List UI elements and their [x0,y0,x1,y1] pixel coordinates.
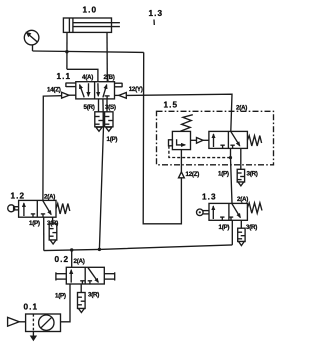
svg-text:1.5: 1.5 [164,101,179,110]
silencer on 3R valve 1.5 [237,169,244,186]
svg-text:4(A): 4(A) [82,74,93,81]
svg-text:1(P): 1(P) [107,136,118,143]
valve 1.1 blocked port T [105,96,110,99]
silencer on 3R valve 0.2 [78,293,86,313]
pilot arrow 12Z into sequence valve [179,150,185,178]
valve 1.1 right box flow arrows [98,83,107,97]
silencer on 3R valve 1.2 [49,224,57,244]
wire 3S stub [106,99,108,112]
sequence element pilot port box [169,140,173,146]
valve 1.1 left pilot triangle 14Z [62,92,76,98]
svg-text:3(R): 3(R) [247,171,258,178]
wire 12Y pilot line from valve 1.5 [126,94,232,131]
svg-text:3(R): 3(R) [246,224,257,231]
svg-text:12(Y): 12(Y) [129,86,143,93]
wire valve 0.2 2A up to bus [71,250,73,267]
wire 5R stub [98,99,100,112]
wire cylinder right port to 2B [106,32,108,81]
valve 1.3 body [209,203,247,220]
cylinder 1.0 [63,18,120,32]
valve 1.2 left box T [31,214,35,217]
wire 14Z pilot line from valve 1.2 [43,96,62,201]
valve 0.2 left box T [80,281,84,284]
valve 0.2 right box T [88,281,92,284]
svg-text:2(B): 2(B) [104,74,115,81]
svg-text:2(A): 2(A) [237,196,248,203]
svg-text:5(R): 5(R) [84,104,95,111]
valve 0.2 left lever plate [56,272,66,280]
valve 0.2 body [66,267,104,284]
valve 1.5 right box diagonal [231,132,240,146]
pilot connector arrow to valve [191,138,209,144]
valve 1.2 left box arrow [23,203,25,216]
valve 1.2 right box diagonal [43,201,51,215]
svg-text:3(R): 3(R) [88,292,99,299]
valve 1.5 left box arrow [213,134,215,147]
svg-text:0.1: 0.1 [24,303,39,312]
svg-text:1.0: 1.0 [83,6,98,15]
valve 1.3 right box diagonal [232,204,240,218]
junction dot dashed line [229,156,232,159]
valve 0.2 left box arrow [70,270,72,283]
wire 1P main supply riser [99,99,103,250]
svg-text:1.3: 1.3 [149,9,164,18]
junction dot 1P riser [98,248,101,251]
wire valve 1.5 1P to valve 1.3 2A [231,148,233,203]
silencer on 3S [105,112,113,132]
valve 1.1 left pilot rectangle [66,83,76,87]
valve 1.2 right box T [41,214,45,217]
svg-text:1.2: 1.2 [11,192,26,201]
wire gauge line [33,51,144,52]
valve 1.2 spring [56,204,70,214]
valve 1.3 right box T [229,217,233,220]
valve 1.1 left box flow arrows [80,83,89,97]
svg-text:2(A): 2(A) [74,258,85,265]
wire valve 0.2 3R stub [80,284,82,293]
sequence element square [172,131,190,149]
wire valve 1.5 3R stub [240,148,242,169]
valve 1.1 body [76,82,115,99]
sequence element spring [180,115,193,132]
wire valve 1.3 1P down [231,220,233,245]
wire main bus [44,245,233,251]
wire pressure sensing line to 12Z [143,52,181,223]
svg-text:1.3: 1.3 [202,193,217,202]
enclosure frame 1.5 (dash-dot) [157,111,274,165]
svg-text:14(Z): 14(Z) [47,87,61,94]
valve 1.3 roller actuator [197,209,210,216]
junction dot 0.2 output [70,248,73,251]
valve 1.2 body [19,200,56,217]
silencer on 5R [95,112,103,132]
valve 1.5 spring [247,136,261,146]
wire cylinder left port [66,32,68,69]
wire valve 1.2 3R stub [52,217,54,224]
valve 1.3 left box arrow [212,206,214,219]
valve 1.5 left box T [220,145,224,148]
reference tick [153,20,155,26]
wire valve 1.2 1P down [43,217,45,250]
compressed air source triangle [8,317,26,326]
svg-text:2(A): 2(A) [236,105,247,112]
dashed pilot line [169,146,231,158]
valve 1.1 right pilot triangle 12Y [115,93,127,99]
svg-text:1(P): 1(P) [218,171,229,178]
svg-text:1(P): 1(P) [55,293,66,300]
svg-text:0.2: 0.2 [55,255,70,264]
svg-text:1.1: 1.1 [57,72,72,81]
wire to port 4A [67,69,98,81]
pressure gauge [24,30,39,51]
valve 1.3 spring [247,203,262,213]
valve 0.2 right lever plate [104,272,114,280]
svg-text:1(P): 1(P) [219,224,230,231]
drain arrow [30,332,37,342]
wire valve 0.2 1P down [61,284,71,322]
svg-text:12(Z): 12(Z) [186,171,200,178]
valve 1.1 right pilot rectangle [115,83,123,87]
svg-text:1(P): 1(P) [29,220,40,227]
air service unit 0.1 [26,314,61,332]
svg-text:2(A): 2(A) [44,194,55,201]
wire valve 1.3 3R stub [240,220,242,228]
silencer on 3R valve 1.3 [238,228,245,245]
junction dot [65,50,68,53]
valve 1.5 right box T [230,145,234,148]
valve 1.3 left box T [220,217,224,220]
valve 1.2 push button actuator [8,205,19,212]
valve 0.2 right box diagonal [88,268,98,283]
valve 1.5 3/2 body [209,131,248,148]
